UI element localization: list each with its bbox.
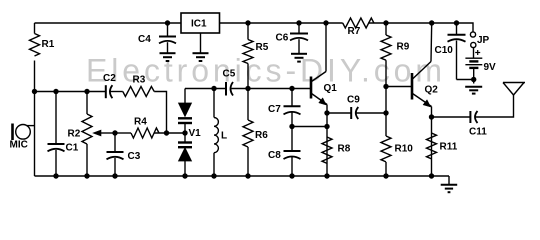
svg-text:R9: R9	[397, 42, 410, 53]
node C7/C8 tap	[289, 124, 294, 129]
capacitor C10	[448, 23, 474, 80]
node C6/rail	[296, 20, 301, 25]
svg-text:R4: R4	[134, 117, 147, 128]
node R2 top	[84, 89, 89, 94]
svg-text:C9: C9	[347, 95, 360, 106]
svg-text:R2: R2	[68, 129, 81, 140]
capacitor C5	[226, 82, 233, 96]
wire C2 to R3	[110, 91, 123, 93]
svg-text:JP: JP	[477, 35, 490, 46]
svg-text:C10: C10	[435, 45, 454, 56]
svg-text:Q2: Q2	[425, 85, 439, 96]
wire C11 from Q2 emitter	[432, 116, 471, 118]
node R2 bottom	[84, 173, 89, 178]
wire C9 from Q1 emitter	[327, 112, 351, 114]
microphone MIC	[13, 124, 35, 141]
wire top rail right of R7	[368, 23, 473, 32]
node R10 bottom	[383, 173, 388, 178]
node C9/R10	[383, 110, 388, 115]
capacitor C4	[159, 23, 176, 53]
node R9/rail	[383, 20, 388, 25]
resistor R11	[427, 133, 437, 159]
svg-text:R10: R10	[395, 144, 414, 155]
node R8 bottom	[324, 173, 329, 178]
wire R2 wiper to R4	[115, 132, 131, 134]
node R5/rail	[245, 20, 250, 25]
resistor R5	[243, 23, 253, 89]
node L top	[211, 86, 216, 91]
ground below C6	[291, 54, 307, 62]
svg-text:C7: C7	[268, 104, 281, 115]
svg-text:C2: C2	[103, 73, 116, 84]
svg-text:R7: R7	[348, 26, 361, 37]
wire top rail	[35, 22, 182, 24]
node battery minus	[471, 77, 476, 82]
node V1 mid	[182, 130, 187, 135]
wire R4 to V1	[154, 132, 185, 134]
svg-text:R8: R8	[338, 144, 351, 155]
ground below C4	[160, 53, 176, 61]
node C3 top	[112, 130, 117, 135]
svg-text:R5: R5	[256, 42, 269, 53]
svg-text:C11: C11	[469, 127, 487, 138]
node Q2 emitter	[429, 114, 434, 119]
resistor R6	[243, 89, 253, 177]
transistor Q1	[311, 23, 327, 176]
wire mid-left horizontal	[35, 91, 106, 93]
node V1 bottom	[182, 173, 187, 178]
node R11 bottom	[429, 173, 434, 178]
resistor R8	[322, 137, 332, 163]
svg-text:C8: C8	[268, 150, 281, 161]
wire oscillator horizontal	[185, 88, 226, 90]
varicap V1	[178, 89, 192, 177]
wire C9 to R9/R10 node	[356, 112, 386, 114]
svg-text:R1: R1	[42, 39, 55, 50]
node Q1 emitter tap2	[324, 124, 329, 129]
svg-text:L: L	[221, 131, 227, 142]
capacitor C3	[107, 133, 124, 176]
capacitor C2	[106, 85, 113, 98]
wire feedback tap C7/C8 to Q1 emitter	[292, 126, 327, 128]
wire top rail right of IC1	[220, 22, 343, 24]
transistor Q2	[412, 23, 432, 176]
node C1 top	[53, 89, 58, 94]
node R3/R4	[164, 130, 169, 135]
capacitor C1	[48, 92, 65, 177]
svg-text:R3: R3	[133, 75, 146, 86]
wire R1 bottom to mid	[34, 61, 36, 177]
svg-text:Q1: Q1	[324, 83, 338, 94]
resistor R10	[381, 136, 391, 176]
ground bottom right	[441, 176, 458, 192]
IC IC1	[181, 13, 220, 53]
node C7 top	[289, 86, 294, 91]
svg-text:C1: C1	[66, 143, 79, 154]
potentiometer R2	[82, 92, 115, 177]
resistor R3	[123, 87, 154, 97]
resistor R1	[30, 34, 40, 57]
wire R3 to V1 mid node	[154, 92, 166, 134]
resistor R9	[381, 23, 391, 136]
node C3 bottom	[112, 173, 117, 178]
svg-text:C5: C5	[223, 69, 236, 80]
node R1/MIC	[32, 89, 37, 94]
svg-text:V1: V1	[189, 128, 202, 139]
node R6 bottom	[245, 173, 250, 178]
node R5/R6	[245, 86, 250, 91]
svg-text:R6: R6	[255, 130, 268, 141]
ground below battery	[465, 87, 482, 94]
svg-text:C4: C4	[138, 34, 151, 45]
node C4/rail	[165, 20, 170, 25]
bottom rail	[35, 175, 450, 177]
svg-text:C3: C3	[128, 151, 141, 162]
capacitor C11	[470, 111, 477, 123]
svg-text:9V: 9V	[484, 62, 497, 73]
ground below IC1	[193, 53, 209, 61]
svg-text:MIC: MIC	[10, 140, 28, 151]
connector JP	[470, 32, 476, 48]
svg-text:IC1: IC1	[191, 19, 207, 30]
capacitor C8	[284, 151, 301, 176]
capacitor C9	[351, 107, 358, 119]
node Q1 collector/rail	[323, 20, 328, 25]
node C8 bottom	[289, 173, 294, 178]
svg-text:R11: R11	[440, 142, 458, 153]
node Q2 collector/rail	[429, 20, 434, 25]
battery 9V	[465, 48, 482, 84]
svg-text:C6: C6	[276, 33, 289, 44]
node Q1 emitter	[324, 110, 329, 115]
node Q2 base	[383, 84, 388, 89]
resistor R7	[343, 18, 374, 28]
wire Q2 base	[386, 86, 411, 88]
wire C11 to antenna	[475, 95, 513, 117]
node C10/rail	[454, 20, 459, 25]
antenna	[503, 83, 525, 96]
capacitor C6	[290, 23, 308, 53]
wire C5 to Q1 base	[232, 88, 311, 90]
node C1 bottom	[53, 173, 58, 178]
inductor L	[214, 89, 218, 177]
node L bottom	[211, 173, 216, 178]
capacitor C7	[284, 89, 301, 151]
wire left vertical R1/MIC	[34, 23, 36, 34]
resistor R4	[131, 128, 159, 138]
